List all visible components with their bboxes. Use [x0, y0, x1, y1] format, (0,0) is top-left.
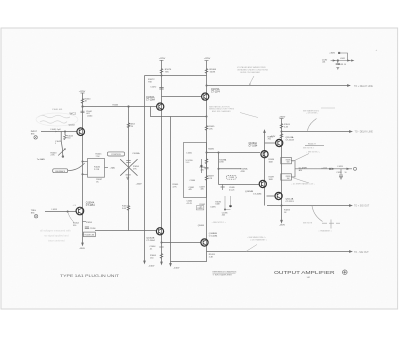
delay line box DL1060: [184, 143, 207, 198]
wire H0: [145, 75, 207, 77]
pointer +BAL: [105, 167, 109, 169]
svg-text:trace centered: trace centered: [48, 239, 65, 243]
svg-text:C1088: C1088: [229, 177, 234, 179]
svg-text:C10624.5-25: C10624.5-25: [187, 201, 193, 205]
leader X right lower: [292, 178, 309, 184]
link from square: [340, 53, 347, 61]
leader H4 note: [246, 245, 257, 252]
ground top right: [336, 67, 339, 69]
wiper join of R1098/R1099: [291, 161, 304, 177]
pencil note: [36, 113, 78, 126]
feedback label box: [53, 169, 68, 173]
svg-text:+350V: +350V: [279, 116, 286, 118]
arc leader to H2b: [308, 119, 317, 131]
wire V8 +350V rail: [281, 119, 283, 222]
arc leader below H3: [312, 206, 340, 229]
cap C1089 stub: [221, 184, 225, 190]
capacitor C1072 on V4: [159, 88, 163, 90]
svg-text:SEE NOTE: SEE NOTE: [303, 223, 313, 225]
wire H4 to signal out minus: [207, 251, 351, 253]
supply tick V8: [280, 118, 284, 120]
wire V5: [170, 117, 172, 264]
svg-text:L1053: L1053: [52, 209, 57, 211]
capacitor C1064: [159, 246, 163, 248]
svg-text:-150V: -150V: [79, 248, 85, 250]
wire stub R1090: [219, 168, 242, 170]
junction dot chain: [337, 60, 339, 62]
svg-text:TO + DELAY LINE: TO + DELAY LINE: [354, 85, 373, 88]
capacitor C1044 on V1: [81, 111, 85, 112]
wire H5: [95, 230, 157, 232]
trim terminal circle: [354, 167, 357, 170]
transistor Q1064A: [157, 103, 164, 110]
svg-text:R1100 27: R1100 27: [308, 144, 316, 146]
wire H6: [162, 242, 202, 244]
svg-text:-150V: -150V: [136, 184, 142, 186]
ground below X coupling: [126, 177, 129, 179]
svg-text:WC2: WC2: [70, 112, 77, 116]
supply tick V1: [81, 92, 85, 94]
stub to diode: [225, 196, 231, 210]
wire base Q1103: [265, 142, 276, 144]
wire V4 +225V rail: [161, 60, 163, 262]
svg-text:TO - SIG OUT: TO - SIG OUT: [354, 252, 369, 254]
svg-text:① INPUT AMPLIFIER: ① INPUT AMPLIFIER: [213, 274, 233, 277]
svg-text:POSITION: POSITION: [111, 154, 121, 156]
wire V7: [264, 132, 266, 206]
junction dot trim: [329, 168, 331, 170]
arrowhead H3: [349, 205, 352, 207]
resistor box R1098: [281, 158, 292, 164]
transistor Q1084B: [201, 239, 208, 246]
svg-text:Q1064BCT-1064: Q1064BCT-1064: [146, 238, 155, 243]
supply arrow -150V V3: [144, 261, 146, 264]
link V1 to divider bottom: [83, 173, 88, 175]
boxed label R1089: [196, 206, 203, 210]
svg-text:TO - DELAY LINE: TO - DELAY LINE: [355, 131, 374, 134]
diode CR1095: [229, 205, 231, 207]
boxed label POSITION: [108, 152, 125, 156]
svg-text:Q1074ACT-1074: Q1074ACT-1074: [211, 88, 221, 94]
top right RC chain L1091: [331, 60, 352, 62]
arrowhead H4: [349, 251, 352, 253]
resistor R1084: [205, 69, 208, 74]
svg-text:+350V: +350V: [329, 53, 335, 55]
svg-text:C1056A: C1056A: [132, 152, 140, 155]
svg-text:C1040 .001: C1040 .001: [52, 109, 63, 111]
junction dots: [64, 131, 65, 132]
resistor R1086: [205, 159, 208, 164]
svg-text:L1099: L1099: [338, 166, 343, 168]
wire H2a input line: [41, 131, 77, 133]
svg-text:+ SEE NOTE 2 +: + SEE NOTE 2 +: [306, 152, 320, 154]
capacitor C1056 bars: [126, 161, 131, 163]
chain arrows: [333, 60, 354, 61]
svg-text:Q1094ACT-1094: Q1094ACT-1094: [249, 142, 259, 148]
svg-text:OUTPUT AMPLIFIER: OUTPUT AMPLIFIER: [274, 270, 335, 275]
wire H10 base Q1094A: [207, 152, 261, 154]
wire emitter link Q1084B: [171, 252, 207, 262]
svg-text:L1040 .1µH: L1040 .1µH: [51, 129, 61, 131]
wire H11 base Q1094B: [219, 184, 259, 186]
wire gain adj branch: [60, 132, 62, 142]
supply arrow up V7: [264, 130, 266, 133]
cross-coupling X left: [120, 159, 137, 176]
resistor R1052: [127, 123, 130, 128]
svg-text:R1058 6.8K: R1058 6.8K: [85, 235, 95, 237]
boxed label R1058: [84, 232, 96, 237]
svg-text:L1091: L1091: [340, 58, 345, 60]
svg-text:Q1114ACT-1113: Q1114ACT-1113: [286, 197, 295, 202]
transistor Q1054: [76, 207, 84, 215]
delay line tap: [200, 159, 202, 173]
svg-text:C1095: C1095: [210, 207, 216, 209]
wire base Q1113: [267, 195, 276, 197]
wire H2b to delay line minus: [282, 131, 351, 133]
resistor R1064: [160, 254, 163, 259]
svg-text:Q1084BCT-1084: Q1084BCT-1084: [209, 233, 218, 238]
supply tick V6: [205, 60, 209, 62]
connector square: [338, 52, 340, 54]
svg-text:SEE NOTE 3: SEE NOTE 3: [303, 148, 314, 150]
dashed cap C1088: [226, 175, 236, 179]
svg-text:Q1103ACT-1103: Q1103ACT-1103: [286, 136, 295, 141]
resistor box R1099: [281, 174, 292, 180]
svg-text:L1060: L1060: [187, 153, 192, 155]
wire V1 -150V rail left: [82, 93, 84, 244]
svg-text:+ SEE WAVEFORM 4 +± 10V TRANSI: + SEE WAVEFORM 4 +± 10V TRANSIENT ±: [247, 236, 267, 241]
svg-text:no signal applied and: no signal applied and: [44, 234, 69, 238]
svg-text:+ SEE NOTE 1 +: + SEE NOTE 1 +: [212, 222, 227, 224]
supply arrow -150V V4: [161, 262, 163, 265]
transistor Q1113: [275, 192, 282, 199]
output trim chain mid right: [304, 168, 352, 170]
transistor Q1094B: [259, 180, 266, 187]
arrowhead H2b: [349, 131, 352, 133]
svg-text:-150V: -150V: [149, 265, 155, 267]
wire interbase ladder: [218, 153, 220, 185]
svg-text:TO + SIG OUT: TO + SIG OUT: [354, 206, 370, 208]
svg-text:C1072: C1072: [150, 86, 157, 88]
pencil note lower: [40, 229, 71, 243]
supply arrow -150V V8: [281, 220, 283, 223]
wire trig tap curve: [68, 212, 74, 222]
wire V2: [128, 107, 130, 231]
arrowhead H1: [347, 85, 350, 87]
cap C1090 drop: [336, 61, 340, 65]
mid right stub R1100: [305, 145, 324, 147]
supply arrow -150V V1: [82, 243, 84, 246]
input terminal INPUT SIG: [34, 136, 37, 139]
input terminal TRIG SIG: [34, 215, 37, 218]
transistor Q1094A: [261, 151, 268, 158]
svg-text:+ DC SHIFT RANGE ±1.5V +: + DC SHIFT RANGE ±1.5V +: [291, 182, 314, 185]
transistor Q1103: [276, 139, 283, 146]
svg-text:+225V: +225V: [159, 58, 166, 60]
wire L1040 tap: [64, 132, 66, 136]
trim chain arrows: [332, 168, 349, 170]
wire V3: [144, 76, 146, 262]
svg-text:C1099: C1099: [336, 172, 341, 174]
circled plus mark: [343, 270, 348, 275]
leader note parts: [240, 113, 258, 118]
variable arrow T gain: [58, 149, 65, 156]
capacitor C1057 bars: [126, 174, 131, 176]
resistor R1085: [205, 126, 208, 131]
resistor R1074: [160, 69, 163, 74]
supply tick V4: [160, 59, 164, 61]
wire H1 to delay line plus: [207, 85, 351, 87]
emitter network ticks Q1054: [83, 222, 90, 235]
wire H9 trigger input: [45, 211, 76, 213]
svg-text:TYPE 1A1 PLUG-IN UNIT: TYPE 1A1 PLUG-IN UNIT: [60, 274, 119, 278]
resistor R1092: [280, 134, 283, 138]
capacitor C1086 on V6: [205, 167, 209, 168]
svg-text:10: 10: [345, 172, 347, 174]
wire gain pot stub: [61, 141, 63, 157]
resistor R1051: [127, 206, 130, 211]
svg-text:+ BAL: + BAL: [110, 167, 116, 170]
wire H7 base Q1074: [162, 96, 202, 98]
svg-text:Q1084: Q1084: [198, 225, 205, 227]
svg-text:-150V: -150V: [279, 225, 285, 227]
svg-text:R1056: R1056: [86, 222, 93, 224]
svg-text:+225V: +225V: [79, 91, 86, 93]
svg-text:R1086: R1086: [208, 149, 214, 151]
svg-text:Q1054ACT-1054: Q1054ACT-1054: [86, 201, 96, 207]
wire H8 base Q1064: [83, 106, 157, 108]
svg-text:L1044: L1044: [87, 115, 92, 117]
svg-text:R1063: R1063: [113, 104, 119, 106]
wire V6 +225V rail: [206, 61, 208, 252]
feedback divider box R1045-R1047: [88, 159, 105, 178]
stub line note: [321, 107, 335, 109]
resistor R1103: [280, 124, 283, 129]
transistor Q1044: [77, 128, 85, 136]
wire H3 to signal out plus: [267, 205, 351, 207]
svg-text:+225V: +225V: [321, 168, 328, 170]
trim cap drop C1099: [339, 169, 343, 177]
leader X right upper: [292, 154, 309, 162]
wire H12 feedback: [151, 107, 207, 117]
svg-text:C1056: C1056: [90, 228, 96, 230]
resistor R1087: [205, 176, 208, 181]
resistor R1044: [64, 135, 67, 140]
svg-text:R1091 10: R1091 10: [338, 64, 346, 66]
feedback leader curve: [68, 163, 85, 171]
svg-text:SEE WAVEFORM 2+ 10V DRIVE +: SEE WAVEFORM 2+ 10V DRIVE +: [303, 110, 319, 115]
link V1 to divider top: [83, 161, 88, 163]
svg-text:FEEDBACK: FEEDBACK: [55, 170, 65, 173]
svg-text:± TRANSIENT ±: ± TRANSIENT ±: [319, 229, 332, 232]
svg-text:C10894.5-25: C10894.5-25: [229, 187, 235, 191]
svg-text:all voltages measured with: all voltages measured with: [40, 229, 71, 233]
transistor Q1074A: [202, 93, 209, 100]
leader arrow note voltages: [250, 76, 255, 85]
svg-text:Q1044: Q1044: [69, 124, 76, 126]
supply arrow -150V V5: [170, 263, 172, 266]
svg-text:+225V: +225V: [204, 58, 211, 60]
svg-text:Q1064ACT-1064: Q1064ACT-1064: [146, 96, 156, 102]
ground C1099: [340, 178, 343, 180]
resistor R1040: [81, 99, 84, 104]
svg-text:-150V: -150V: [174, 268, 180, 270]
transistor Q1064B: [156, 228, 163, 235]
svg-text:+2.4: +2.4: [73, 205, 77, 207]
svg-text:Tx GAIN: Tx GAIN: [37, 158, 45, 161]
svg-text:C1060: C1060: [190, 180, 196, 182]
